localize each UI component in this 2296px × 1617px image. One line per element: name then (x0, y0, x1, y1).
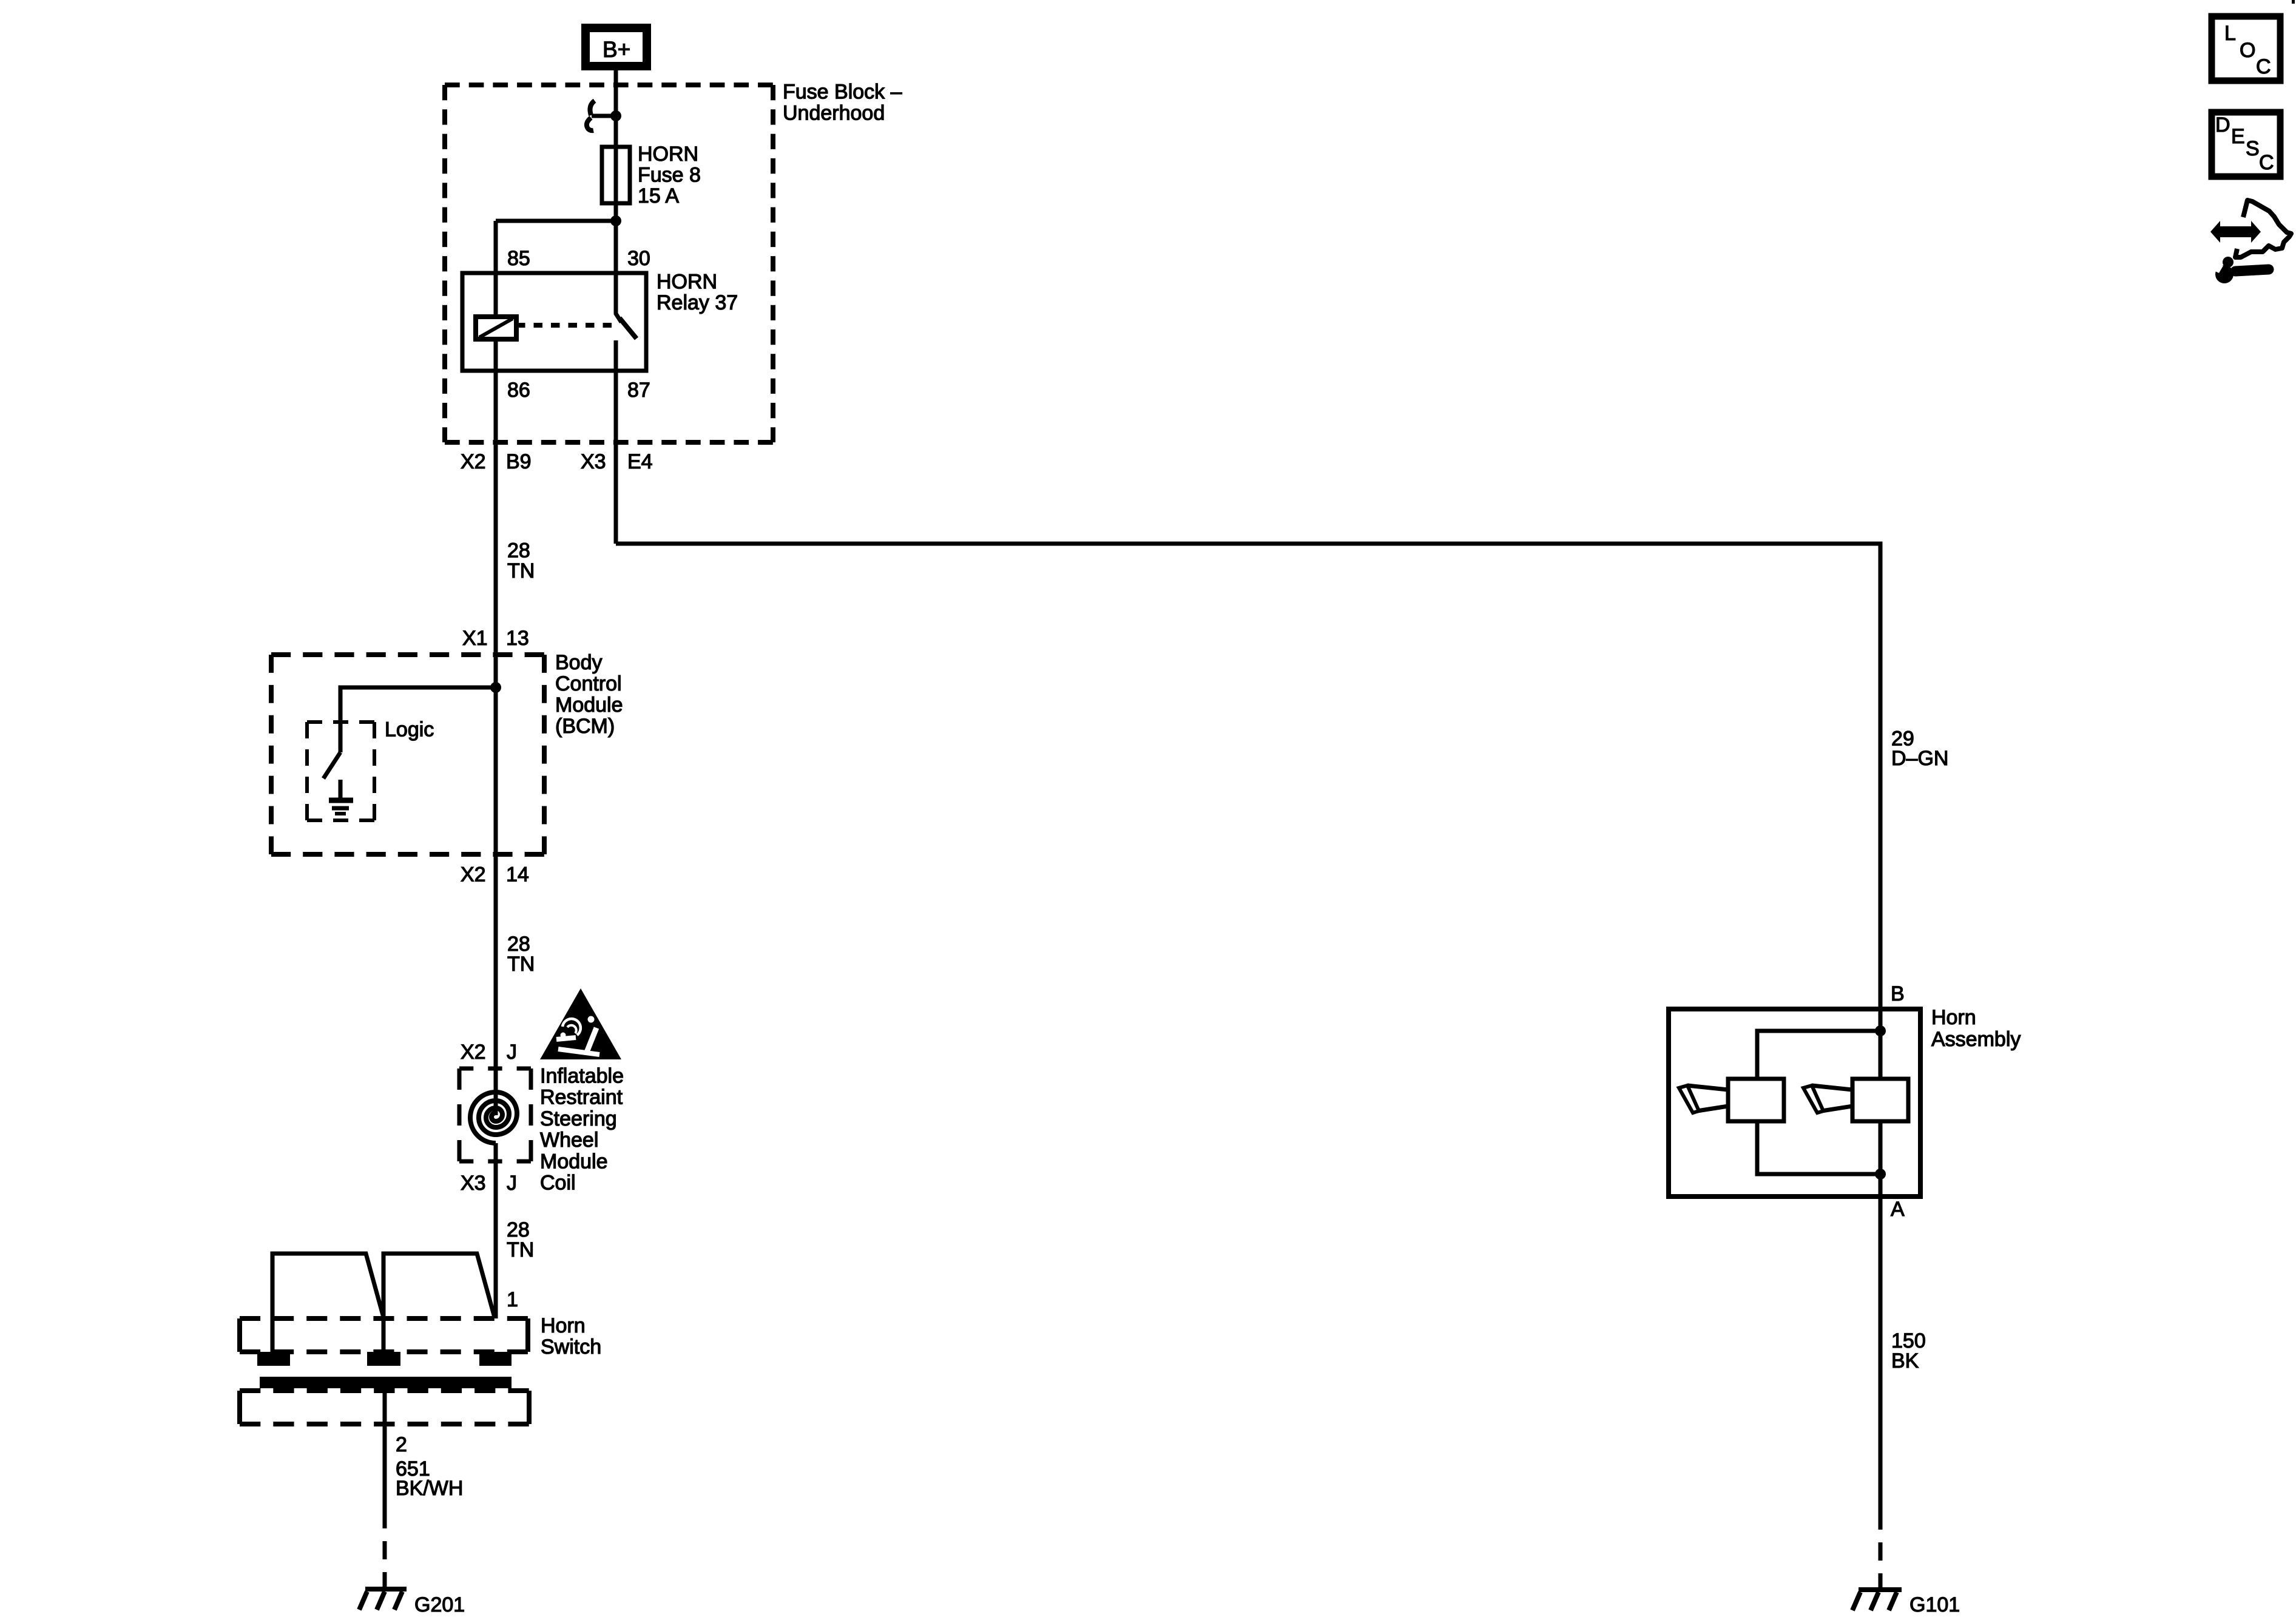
svg-text:Fuse Block –: Fuse Block – (783, 81, 902, 104)
svg-text:TN: TN (507, 1238, 534, 1261)
svg-text:E: E (2231, 125, 2245, 148)
svg-text:13: 13 (506, 627, 529, 650)
svg-text:Module: Module (540, 1150, 608, 1173)
svg-text:TN: TN (507, 559, 535, 582)
svg-text:B9: B9 (506, 450, 532, 473)
svg-text:A: A (1891, 1198, 1905, 1221)
svg-text:2: 2 (396, 1433, 407, 1456)
svg-text:(BCM): (BCM) (555, 715, 615, 738)
svg-text:Horn: Horn (541, 1314, 586, 1337)
svg-text:85: 85 (507, 247, 530, 270)
svg-text:Assembly: Assembly (1931, 1028, 2021, 1051)
svg-text:S: S (2246, 137, 2260, 160)
svg-text:BK: BK (1891, 1349, 1919, 1372)
svg-text:L: L (2224, 22, 2236, 45)
svg-text:C: C (2259, 151, 2274, 174)
svg-text:O: O (2240, 39, 2255, 62)
svg-text:X3: X3 (581, 450, 606, 473)
svg-text:X3: X3 (461, 1172, 486, 1195)
svg-text:J: J (507, 1172, 517, 1195)
svg-text:Relay 37: Relay 37 (657, 291, 738, 314)
svg-text:87: 87 (627, 379, 650, 402)
svg-text:Inflatable: Inflatable (540, 1065, 624, 1088)
svg-text:X1: X1 (462, 627, 488, 650)
svg-text:Fuse 8: Fuse 8 (638, 164, 701, 187)
svg-text:Steering: Steering (540, 1107, 617, 1130)
svg-text:HORN: HORN (657, 271, 717, 294)
svg-text:X2: X2 (461, 863, 486, 886)
svg-text:D: D (2215, 113, 2230, 137)
svg-text:Horn: Horn (1931, 1006, 1976, 1029)
svg-text:G101: G101 (1909, 1593, 1960, 1616)
svg-text:G201: G201 (414, 1593, 465, 1616)
svg-text:C: C (2256, 55, 2271, 78)
svg-text:86: 86 (507, 379, 530, 402)
svg-text:Switch: Switch (541, 1335, 601, 1359)
svg-text:Restraint: Restraint (540, 1086, 623, 1109)
svg-text:Coil: Coil (540, 1172, 576, 1195)
svg-text:Module: Module (555, 694, 623, 717)
svg-text:HORN: HORN (638, 143, 698, 166)
svg-text:Control: Control (555, 672, 622, 695)
svg-text:TN: TN (507, 953, 535, 976)
svg-text:30: 30 (627, 247, 650, 270)
svg-text:D–GN: D–GN (1891, 747, 1948, 770)
svg-text:B: B (1891, 982, 1905, 1005)
svg-text:B+: B+ (603, 37, 630, 62)
svg-text:Underhood: Underhood (783, 102, 885, 125)
svg-text:E4: E4 (627, 450, 653, 473)
svg-text:Body: Body (555, 651, 603, 674)
svg-text:1: 1 (507, 1288, 518, 1311)
svg-text:J: J (507, 1041, 517, 1064)
svg-text:15 A: 15 A (638, 184, 679, 208)
svg-text:BK/WH: BK/WH (396, 1477, 463, 1500)
svg-text:Wheel: Wheel (540, 1129, 598, 1152)
svg-text:X2: X2 (461, 1041, 486, 1064)
svg-text:Logic: Logic (385, 718, 434, 741)
svg-text:14: 14 (506, 863, 529, 886)
svg-text:28: 28 (507, 539, 530, 562)
svg-text:X2: X2 (461, 450, 486, 473)
